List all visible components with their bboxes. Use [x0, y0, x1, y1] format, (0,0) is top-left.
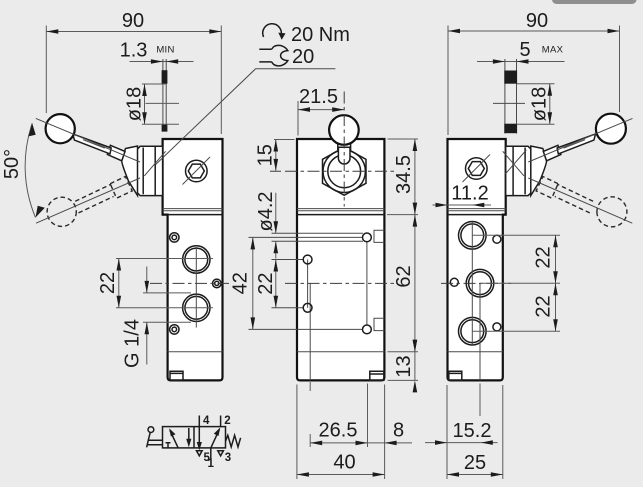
- right view cone washer: [531, 146, 547, 196]
- ball end cap lower (left, solid black): [162, 124, 168, 131]
- front view hole row ticks: [249, 237, 364, 329]
- symbol exhaust triangle port 3: [218, 451, 224, 456]
- right view ball knob: [596, 114, 626, 144]
- symbol valve boxes: [163, 427, 226, 448]
- svg-text:ø4.2: ø4.2: [255, 191, 277, 231]
- left view dashed collar: [110, 177, 132, 199]
- svg-text:15.2: 15.2: [453, 420, 492, 442]
- symbol manual lever actuator: [148, 427, 154, 433]
- svg-text:21.5: 21.5: [299, 86, 338, 108]
- svg-text:22: 22: [532, 295, 554, 317]
- front view right hole connector: [366, 242, 368, 326]
- right view small hole mid left: [450, 278, 458, 286]
- front view screw hole top-right: [363, 233, 372, 242]
- dim 25: [447, 385, 503, 479]
- right view bottom-left exhaust detail: [449, 371, 462, 380]
- svg-text:22: 22: [97, 272, 119, 294]
- dim 22 lower (right view): [532, 283, 558, 331]
- right view body outline: [448, 139, 506, 380]
- dim 11.2: [433, 183, 492, 208]
- left view ball knob: [46, 114, 75, 143]
- left view stem highlight line: [83, 140, 105, 149]
- left view small hole top: [170, 233, 179, 242]
- svg-text:15: 15: [254, 144, 276, 166]
- left view bottom-left exhaust detail: [170, 371, 183, 380]
- svg-text:26.5: 26.5: [319, 420, 358, 442]
- dim o18 (left): [123, 84, 179, 124]
- lever-end trace column (left): [163, 59, 166, 132]
- symbol port 4 line: [198, 416, 200, 427]
- symbol flow 4 to 5 (right box down arrow): [198, 427, 200, 449]
- left view port vertical tick: [195, 247, 197, 328]
- browser tab remnant top-right: [552, 0, 637, 4]
- front view horizontal centerline: [285, 282, 397, 284]
- left view divider lines: [163, 209, 223, 211]
- right view stem highlight: [564, 140, 586, 149]
- left view horizontal centerline: [150, 282, 229, 284]
- symbol box divider: [193, 427, 195, 448]
- front view right edge tab upper: [374, 230, 384, 242]
- dim o4.2: [255, 191, 278, 258]
- dim 26.5: [310, 382, 367, 447]
- svg-text:ø18: ø18: [123, 87, 145, 121]
- dim 42: [229, 237, 255, 329]
- svg-text:90: 90: [122, 10, 144, 32]
- svg-text:3: 3: [225, 452, 231, 464]
- dim 15: [254, 140, 294, 171]
- svg-text:4: 4: [203, 415, 210, 427]
- dim G 1/4 (port thread): [121, 267, 191, 368]
- svg-text:ø18: ø18: [528, 87, 550, 121]
- svg-text:90: 90: [526, 10, 548, 32]
- svg-text:MAX: MAX: [542, 45, 564, 56]
- front view screw hole bottom-left: [303, 303, 312, 312]
- lever-end trace column (right): [505, 59, 517, 134]
- right view port 3 (bottom): [459, 317, 487, 345]
- left view dashed lever stem: [75, 184, 113, 213]
- right view dashed collar: [536, 177, 558, 199]
- svg-text:11.2: 11.2: [451, 183, 488, 205]
- right view port connector vertical: [471, 222, 473, 346]
- arc arrowheads: [29, 123, 36, 136]
- front view ball knob: [329, 115, 359, 145]
- symbol left box flow 1 to 4: [170, 431, 178, 448]
- left view lever axis centerline: [36, 118, 140, 162]
- front view screw hole bottom-right: [363, 325, 372, 334]
- left hex socket screw: [183, 157, 211, 185]
- right view dashed lever stem: [555, 184, 593, 213]
- front view nut horizontal centerline: [270, 170, 397, 172]
- left view nut cross tick: [144, 151, 165, 176]
- dim 21.5: [298, 86, 344, 136]
- front view screw hole top-left: [303, 255, 312, 264]
- symbol return spring: [226, 435, 241, 447]
- right view small hole bottom: [493, 323, 501, 331]
- front view bottom-right exhaust detail: [370, 371, 384, 380]
- 50 degree swing arc: [25, 123, 35, 217]
- right view small hole top: [493, 235, 501, 243]
- dim 62: [393, 215, 417, 352]
- left view lever collar: [107, 145, 125, 161]
- svg-text:22: 22: [532, 246, 554, 268]
- dim 15.2: [425, 384, 498, 445]
- torque icon (circular arrow): [263, 24, 282, 37]
- front view divider lines: [297, 209, 384, 211]
- symbol port 2 line: [220, 416, 222, 427]
- right view nut cross ticks: [503, 150, 527, 176]
- right view horizontal centerline: [441, 282, 511, 284]
- dim 5 MAX (lever end travel): [477, 39, 565, 64]
- right view lever axis centerline: [528, 118, 632, 162]
- front view stem over nut: [338, 147, 350, 164]
- svg-text:22: 22: [255, 272, 277, 294]
- svg-text:40: 40: [333, 452, 355, 474]
- left view port G1/4 lower: [183, 294, 210, 321]
- right hex socket screw: [463, 155, 491, 183]
- svg-text:MIN: MIN: [156, 45, 174, 56]
- ball end cap upper (left, solid black): [162, 70, 168, 84]
- right view lever stem: [557, 134, 595, 154]
- dim 22 (front view): [255, 260, 278, 308]
- svg-text:13: 13: [393, 355, 415, 377]
- left view port G1/4 upper: [183, 246, 210, 273]
- front view lever stem: [338, 135, 351, 165]
- left view small hole mid right: [213, 279, 222, 288]
- ball end cap lower (right, solid black): [504, 124, 517, 134]
- right view port 1 (top): [459, 222, 487, 250]
- center tick between caps (right): [493, 102, 525, 104]
- svg-text:50°: 50°: [1, 149, 23, 179]
- front view feature line: [309, 283, 311, 380]
- symbol flow 1 to 2 (right box): [211, 430, 220, 448]
- dim 90 (right view): [448, 10, 620, 135]
- left view nut (hex side view): [137, 146, 162, 195]
- right view lever collar: [543, 145, 561, 161]
- right view port2 column line: [479, 283, 481, 380]
- svg-text:2: 2: [224, 415, 230, 427]
- svg-text:42: 42: [229, 272, 251, 294]
- left view dashed position axis line: [36, 178, 140, 223]
- right view dashed ball: [597, 197, 627, 227]
- svg-text:1: 1: [208, 458, 215, 470]
- left view small hole bottom: [170, 325, 179, 334]
- left view body outline: [163, 139, 223, 380]
- svg-text:1.3: 1.3: [120, 40, 148, 62]
- svg-text:20 Nm: 20 Nm: [291, 24, 350, 46]
- front view vertical centerline: [343, 92, 345, 207]
- right view nut: [506, 146, 531, 195]
- svg-text:5: 5: [519, 39, 530, 61]
- right view port 2 (middle): [466, 269, 494, 297]
- svg-text:8: 8: [393, 419, 404, 441]
- dim 8: [368, 419, 413, 445]
- leader line to nut from wrench label: [156, 69, 336, 165]
- front view cone washer circles: [323, 150, 365, 192]
- front view hex nut: [323, 147, 367, 195]
- dim 34.5: [387, 139, 418, 215]
- left view cone washer: [122, 146, 138, 196]
- svg-text:62: 62: [393, 265, 415, 287]
- symbol left box blocked port T: [166, 443, 171, 448]
- symbol port 1 line: [210, 448, 212, 459]
- symbol left box flow 2 to 3: [188, 428, 190, 445]
- dim 1.3 MIN (lever end play): [120, 40, 194, 64]
- left view dashed ball: [47, 197, 76, 226]
- front view hole extension lines (o4.2): [272, 233, 364, 241]
- wrench icon: [259, 45, 288, 66]
- right view lever assembly (mirror of left): [503, 114, 633, 227]
- front view right edge tab lower: [374, 318, 384, 330]
- dim 22 upper (right view): [472, 235, 560, 331]
- right view dashed position axis line: [528, 178, 632, 223]
- left view lever stem: [73, 134, 111, 154]
- front view body outline: [297, 139, 384, 380]
- svg-text:G 1/4: G 1/4: [121, 319, 143, 368]
- dim 22 (left view port spacing): [97, 259, 213, 308]
- dim 90 (left view): [46, 10, 221, 134]
- dim 40: [297, 385, 385, 480]
- symbol exhaust triangle port 5: [197, 451, 203, 456]
- svg-text:20: 20: [292, 46, 314, 68]
- dim o18 (right): [517, 84, 555, 125]
- ball end cap upper (right, solid black): [504, 71, 517, 84]
- right view divider lines: [448, 209, 506, 211]
- svg-text:25: 25: [464, 452, 486, 474]
- svg-text:34.5: 34.5: [393, 155, 415, 194]
- dim 13: [388, 340, 419, 393]
- front view left hole connector: [307, 260, 309, 308]
